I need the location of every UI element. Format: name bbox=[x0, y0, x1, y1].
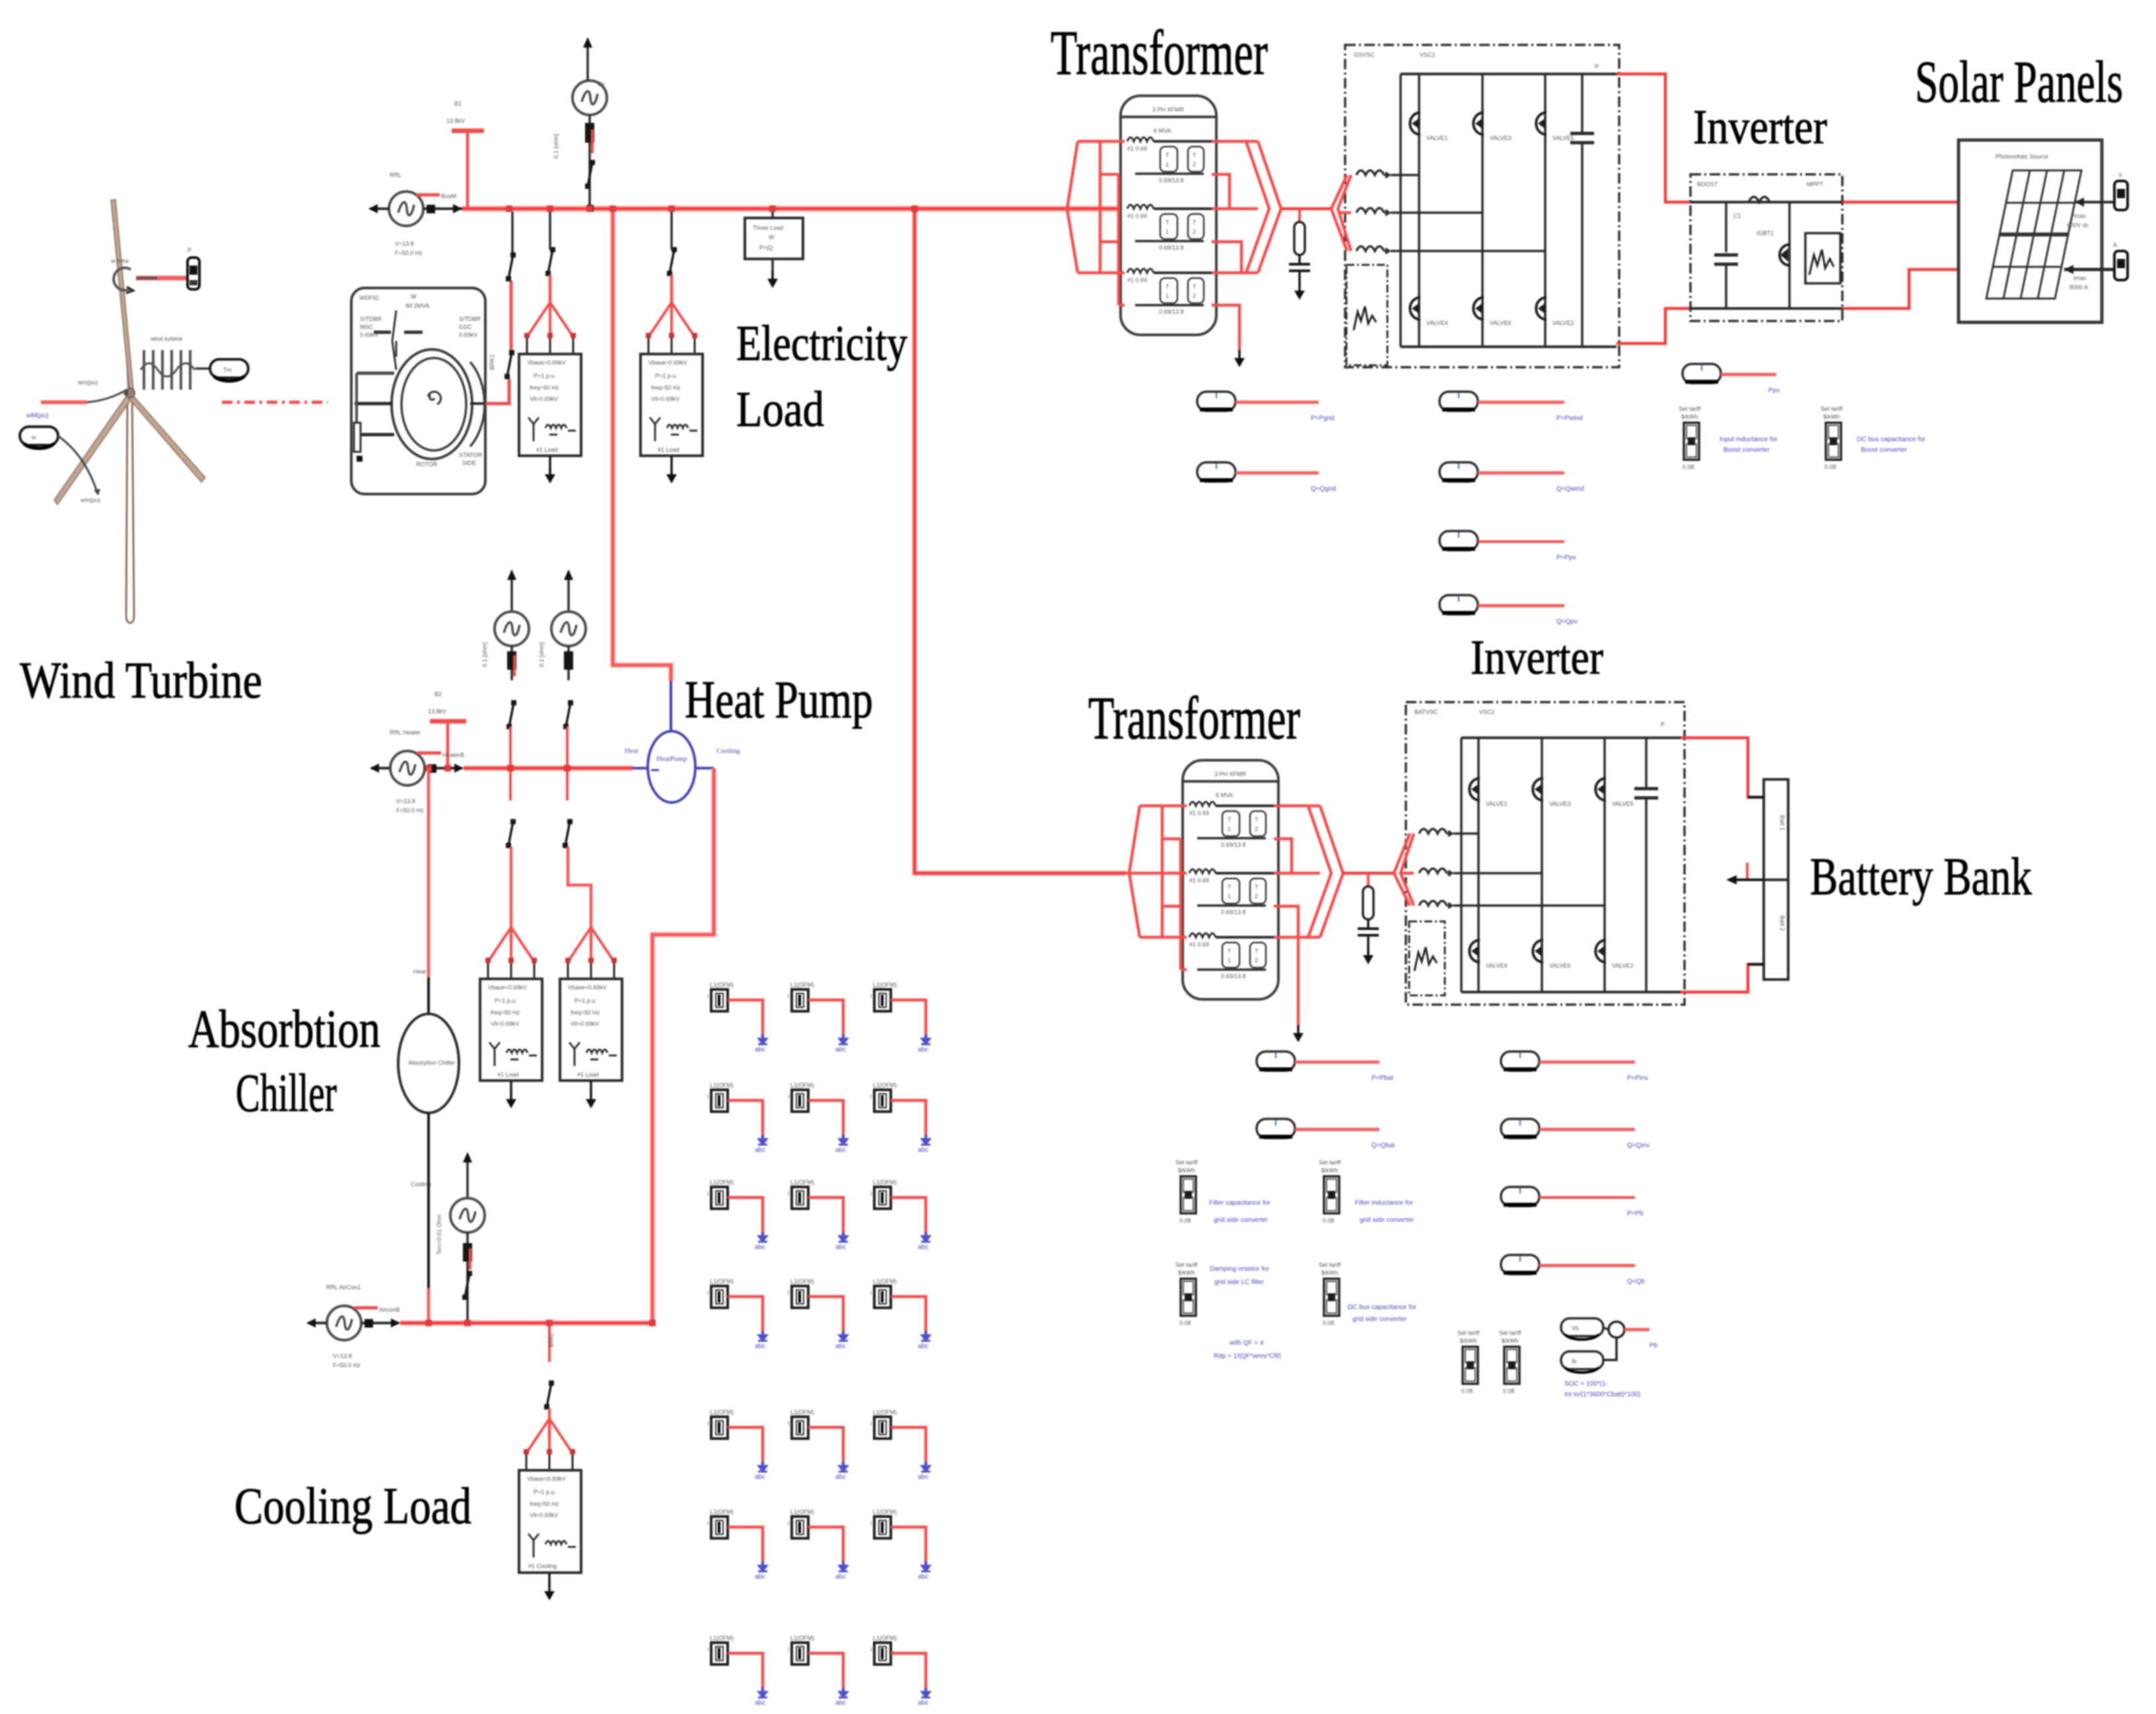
svg-text:Vb: Vb bbox=[1572, 1325, 1579, 1332]
svg-text:ROTOR: ROTOR bbox=[416, 461, 438, 468]
meter capsule row B2 bbox=[1440, 462, 1478, 482]
heater load branch 2 down bbox=[566, 768, 569, 801]
solar panel grid bbox=[1986, 170, 2081, 299]
svg-text:Batt 1: Batt 1 bbox=[1779, 815, 1786, 831]
svg-text:RRL AirCon1: RRL AirCon1 bbox=[326, 1284, 361, 1291]
svg-text:C1: C1 bbox=[1733, 213, 1741, 219]
svg-text:600V dc: 600V dc bbox=[2067, 222, 2089, 229]
svg-text:A: A bbox=[2113, 242, 2117, 248]
wind turbine blade C bbox=[129, 394, 205, 482]
bus2 junction dots bbox=[444, 765, 451, 771]
svg-text:BRKc: BRKc bbox=[548, 1332, 555, 1347]
bus3 junction dots bbox=[425, 1320, 432, 1326]
T1 ground right bbox=[1234, 350, 1245, 367]
firing pulse sub-box bbox=[1346, 265, 1387, 365]
inverter2 IGBTs top bbox=[1469, 778, 1480, 801]
cooling aux source bbox=[466, 1155, 469, 1197]
svg-text:V: V bbox=[2118, 172, 2122, 178]
svg-text:GSVSC: GSVSC bbox=[1354, 52, 1375, 58]
svg-text:grid side converter: grid side converter bbox=[1214, 1217, 1269, 1224]
svg-text:P: P bbox=[188, 247, 191, 254]
arc to wm label bbox=[58, 436, 98, 494]
meter capsule row A1 bbox=[1197, 392, 1235, 411]
dcdc rails bbox=[1690, 201, 1842, 203]
svg-text:wm(pu): wm(pu) bbox=[77, 379, 98, 386]
tariff F2 bbox=[1499, 1330, 1521, 1394]
converter rails bbox=[1401, 73, 1617, 75]
svg-text:w beta: w beta bbox=[110, 258, 129, 264]
svg-text:Int Io/(1*3600*Cbatt)*100): Int Io/(1*3600*Cbatt)*100) bbox=[1564, 1391, 1640, 1398]
svg-text:SIDE: SIDE bbox=[462, 460, 476, 466]
red stub wM bbox=[41, 400, 87, 404]
dcdc capacitor bbox=[1725, 202, 1727, 252]
breaker drop 2 (load2) bbox=[667, 247, 677, 276]
svg-text:DC bus capacitance for: DC bus capacitance for bbox=[1857, 436, 1926, 443]
svg-text:Heat: Heat bbox=[413, 968, 427, 975]
cooling load block bbox=[519, 1419, 581, 1600]
battery bottom cell bbox=[1764, 880, 1788, 980]
wind turbine blade B bbox=[54, 394, 132, 505]
battery top cell bbox=[1764, 779, 1788, 880]
svg-text:Cooling: Cooling bbox=[411, 1181, 431, 1188]
svg-text:Ppv: Ppv bbox=[1768, 387, 1780, 394]
svg-text:BusM: BusM bbox=[441, 193, 456, 199]
wire spring to meter bbox=[195, 367, 210, 370]
svg-text:Pmax: Pmax bbox=[2071, 213, 2087, 219]
heat pump ellipse bbox=[670, 681, 672, 731]
svg-text:Chiller: Chiller bbox=[236, 1063, 337, 1123]
breaker top of riser bbox=[506, 252, 516, 281]
svg-text:Cooling Load: Cooling Load bbox=[234, 1477, 471, 1534]
svg-text:HeatPump: HeatPump bbox=[656, 755, 687, 763]
svg-text:P=Pwind: P=Pwind bbox=[1556, 415, 1583, 422]
svg-text:VSC2: VSC2 bbox=[1479, 709, 1495, 715]
dcdc to solar red bottom bbox=[1842, 269, 1959, 308]
T2 ground right bbox=[1293, 1025, 1304, 1042]
svg-text:Inverter: Inverter bbox=[1471, 631, 1603, 685]
T1 row mid-links red bbox=[1212, 141, 1258, 350]
heat busbar T bbox=[430, 719, 466, 724]
load block 2 bbox=[641, 303, 703, 483]
meter capsule D4 bbox=[1501, 1255, 1539, 1274]
svg-text:VALVE5: VALVE5 bbox=[1552, 135, 1574, 141]
inverter2 DC cap bbox=[1634, 787, 1658, 791]
meter capsule D3 bbox=[1501, 1187, 1539, 1206]
machine ellipse bbox=[392, 349, 472, 459]
svg-text:Wind Turbine: Wind Turbine bbox=[20, 651, 262, 709]
svg-text:VALVE6: VALVE6 bbox=[1549, 962, 1571, 969]
T2 to inverter2 link bbox=[1343, 872, 1394, 875]
yaw circle w governor bbox=[114, 268, 131, 291]
wire yaw to pitch block bbox=[136, 276, 186, 281]
svg-text:HeaterB: HeaterB bbox=[442, 752, 464, 758]
generator block WDFIG bbox=[351, 288, 485, 494]
svg-text:VALVE4: VALVE4 bbox=[1426, 320, 1448, 326]
svg-text:#1 Cooling: #1 Cooling bbox=[528, 1563, 557, 1569]
converter legs bbox=[1419, 74, 1582, 347]
svg-text:VALVE2: VALVE2 bbox=[1552, 320, 1574, 326]
svg-text:0.1 [ohm]: 0.1 [ohm] bbox=[538, 642, 545, 667]
svg-text:Absorbtion: Absorbtion bbox=[188, 999, 380, 1059]
svg-text:Q=Qbat: Q=Qbat bbox=[1372, 1142, 1395, 1149]
svg-text:BATVSC: BATVSC bbox=[1414, 709, 1438, 715]
inverter2 input inductors bbox=[1419, 829, 1452, 836]
tariff block pv2 bbox=[1821, 406, 1843, 470]
svg-text:Absorption Chiller: Absorption Chiller bbox=[408, 1059, 455, 1066]
svg-text:GSC: GSC bbox=[459, 324, 472, 330]
DC capacitor bbox=[1570, 132, 1594, 135]
svg-text:V=13.8: V=13.8 bbox=[396, 798, 415, 804]
svg-text:Transformer: Transformer bbox=[1088, 684, 1300, 752]
meter capsule row A2 bbox=[1197, 462, 1235, 482]
heat pump feeder drop bbox=[613, 209, 671, 681]
svg-text:SOC = 100*(1-: SOC = 100*(1- bbox=[1564, 1380, 1608, 1388]
meter capsule D2 bbox=[1501, 1119, 1539, 1138]
svg-text:S/TDBR: S/TDBR bbox=[459, 316, 481, 322]
svg-text:w: w bbox=[31, 434, 36, 441]
svg-text:Inverter: Inverter bbox=[1693, 100, 1827, 155]
svg-text:P+jQ: P+jQ bbox=[759, 244, 773, 251]
torque meter capsule bbox=[210, 359, 248, 378]
heater source branch 2 up bbox=[567, 572, 570, 612]
AC source cooling bbox=[327, 1306, 361, 1340]
stator wires bbox=[357, 372, 394, 375]
svg-text:with QF = 4: with QF = 4 bbox=[1229, 1339, 1264, 1347]
svg-text:0.69kV: 0.69kV bbox=[459, 332, 477, 338]
converter outer dash box bbox=[1345, 45, 1619, 367]
svg-text:0.1 [ohm]: 0.1 [ohm] bbox=[553, 133, 559, 159]
tariff E2 bbox=[1319, 1159, 1341, 1224]
arc into hub bbox=[87, 390, 127, 402]
svg-text:grid side LC filter: grid side LC filter bbox=[1214, 1279, 1265, 1286]
svg-text:VALVE3: VALVE3 bbox=[1549, 801, 1571, 807]
svg-text:Heat Pump: Heat Pump bbox=[685, 671, 873, 729]
svg-text:Boost converter: Boost converter bbox=[1861, 446, 1908, 454]
IGBTs bottom row bbox=[1410, 297, 1420, 320]
transformer T1 block bbox=[1121, 96, 1216, 335]
svg-text:MPPT: MPPT bbox=[1807, 181, 1824, 188]
dcdc inductor bbox=[1749, 197, 1770, 202]
wind turbine tower bbox=[126, 392, 134, 623]
svg-text:F=50.0 Hz: F=50.0 Hz bbox=[395, 250, 423, 256]
inverter2 rails bbox=[1461, 736, 1681, 739]
main AC grid source bbox=[389, 192, 423, 226]
shunt RC on T2 link bbox=[1358, 873, 1379, 964]
T1 input chevron wiring bbox=[1067, 141, 1125, 305]
svg-text:S/TDBR: S/TDBR bbox=[360, 316, 382, 322]
heater source branch 1 up bbox=[510, 572, 513, 612]
shunt RC on link bbox=[1289, 209, 1310, 300]
tariff E3 bbox=[1175, 1262, 1198, 1326]
svg-text:Tm: Tm bbox=[223, 367, 232, 373]
svg-text:VALVE2: VALVE2 bbox=[1612, 962, 1634, 969]
svg-text:VALVE6: VALVE6 bbox=[1490, 320, 1512, 326]
svg-text:Solar Panels: Solar Panels bbox=[1915, 50, 2123, 115]
generator riser red to bus bbox=[510, 281, 513, 350]
svg-text:Vbase=0.69kV: Vbase=0.69kV bbox=[527, 1476, 566, 1482]
svg-text:WDFIG: WDFIG bbox=[359, 295, 379, 301]
svg-text:P=Ppv: P=Ppv bbox=[1556, 554, 1576, 561]
converter DC out red bottom bbox=[1617, 308, 1690, 343]
svg-text:P: P bbox=[1595, 63, 1599, 70]
svg-text:B1: B1 bbox=[454, 100, 462, 107]
svg-text:BRK1: BRK1 bbox=[489, 354, 495, 370]
meter capsule D1 bbox=[1501, 1052, 1539, 1071]
dcdc diode bbox=[1788, 202, 1791, 308]
solar panel block bbox=[1959, 140, 2102, 322]
inverter2 firing box bbox=[1409, 921, 1445, 995]
svg-text:F=50.0 Hz: F=50.0 Hz bbox=[396, 807, 424, 814]
svg-text:IGBT1: IGBT1 bbox=[1756, 230, 1774, 236]
svg-text:W: W bbox=[769, 234, 775, 240]
svg-text:Three Load: Three Load bbox=[753, 225, 783, 231]
svg-text:0.1 [ohm]: 0.1 [ohm] bbox=[481, 642, 488, 667]
chiller feeder bbox=[427, 768, 431, 978]
svg-text:Batt 2: Batt 2 bbox=[1779, 915, 1786, 931]
svg-text:V=13.8: V=13.8 bbox=[333, 1353, 352, 1359]
svg-text:grid side converter: grid side converter bbox=[1352, 1316, 1407, 1323]
svg-text:VSC1: VSC1 bbox=[1420, 52, 1436, 58]
svg-text:VALVE4: VALVE4 bbox=[1486, 962, 1508, 969]
svg-text:P=Pgrid: P=Pgrid bbox=[1311, 415, 1335, 422]
svg-text:Cooling: Cooling bbox=[716, 747, 740, 755]
inverter2 outer dash box bbox=[1406, 702, 1685, 1005]
svg-text:Q=Qinv: Q=Qinv bbox=[1627, 1142, 1650, 1149]
generator red output wire bbox=[485, 379, 509, 404]
tariff block pv1 bbox=[1679, 406, 1701, 470]
svg-text:B2: B2 bbox=[435, 691, 442, 697]
svg-text:F=50.0 Hz: F=50.0 Hz bbox=[333, 1362, 361, 1369]
rotor output line bbox=[470, 402, 485, 405]
dcdc box bbox=[1690, 174, 1842, 321]
cooling bus red bbox=[400, 1320, 652, 1326]
input inductors bbox=[1356, 170, 1389, 178]
cooling load branch bbox=[548, 1323, 551, 1362]
dcdc PWM box bbox=[1805, 233, 1840, 283]
svg-text:RRL: RRL bbox=[390, 172, 401, 178]
multiplier group bbox=[1561, 1318, 1603, 1336]
svg-text:Filter inductance for: Filter inductance for bbox=[1355, 1199, 1413, 1207]
tariff E4 bbox=[1319, 1262, 1341, 1326]
svg-text:Es: Es bbox=[598, 81, 605, 87]
svg-text:Load: Load bbox=[736, 382, 824, 437]
svg-text:P: P bbox=[1661, 721, 1665, 728]
breaker on generator riser bbox=[504, 350, 514, 379]
svg-text:Tsrc=0.01 Ohm: Tsrc=0.01 Ohm bbox=[436, 1215, 442, 1255]
inverter2 out red top bbox=[1681, 738, 1764, 797]
inverter2 input chevron bbox=[1394, 834, 1414, 906]
svg-text:Damping resistor for: Damping resistor for bbox=[1210, 1266, 1270, 1273]
T1 to converter red link bbox=[1281, 207, 1331, 211]
svg-text:VALVE5: VALVE5 bbox=[1612, 801, 1634, 807]
meter capsule row B1 bbox=[1440, 392, 1478, 411]
svg-text:Q=Qgrid: Q=Qgrid bbox=[1311, 485, 1336, 493]
meter capsule C2 bbox=[1257, 1119, 1295, 1138]
svg-text:Filter capacitance for: Filter capacitance for bbox=[1209, 1199, 1270, 1207]
svg-text:13.8kV: 13.8kV bbox=[428, 708, 446, 715]
converter DC out red top bbox=[1617, 74, 1690, 202]
heat bus red bbox=[464, 766, 633, 771]
svg-text:Imax: Imax bbox=[2073, 275, 2087, 281]
svg-text:8000 A: 8000 A bbox=[2069, 284, 2088, 291]
AC source heat bus bbox=[390, 751, 425, 785]
svg-text:Electricity: Electricity bbox=[736, 316, 907, 371]
battery mid tap bbox=[1746, 863, 1749, 881]
svg-text:W: W bbox=[411, 293, 417, 300]
svg-text:P=Pbat: P=Pbat bbox=[1372, 1075, 1393, 1082]
inverter2 out red bottom bbox=[1681, 964, 1764, 992]
svg-text:Q=Qpv: Q=Qpv bbox=[1556, 618, 1578, 625]
T1 output chevron bbox=[1246, 141, 1281, 273]
IGBTs top row bbox=[1410, 112, 1420, 135]
bus1 red horizontal bbox=[462, 206, 1125, 212]
svg-text:wm(pu): wm(pu) bbox=[80, 497, 100, 503]
svg-text:Heat: Heat bbox=[625, 747, 639, 755]
svg-text:grid side converter: grid side converter bbox=[1360, 1217, 1414, 1224]
svg-text:AirconB: AirconB bbox=[379, 1306, 400, 1313]
T2 right side links bbox=[1274, 806, 1320, 1025]
T2 output chevron bbox=[1308, 806, 1343, 937]
svg-text:VALVE3: VALVE3 bbox=[1490, 135, 1512, 141]
svg-text:Rdp = 1/(QF*wres*Cfil): Rdp = 1/(QF*wres*Cfil) bbox=[1214, 1353, 1281, 1360]
solar terminals bbox=[2075, 201, 2114, 203]
inverter2 legs bbox=[1478, 738, 1646, 992]
transformer2 feeder drop bbox=[915, 209, 1125, 873]
heater load branch 1 down bbox=[509, 768, 512, 801]
svg-text:VALVE1: VALVE1 bbox=[1486, 801, 1508, 807]
wind turbine mast link bbox=[123, 288, 129, 391]
battery terminals black stubs bbox=[1748, 796, 1764, 799]
meter capsule row B3 bbox=[1440, 531, 1478, 550]
bus junction dots bbox=[506, 205, 512, 212]
svg-text:MSC: MSC bbox=[360, 324, 374, 330]
chiller bottom line bbox=[427, 1113, 430, 1288]
svg-text:VALVE1: VALVE1 bbox=[1426, 135, 1448, 141]
svg-text:wM(pu): wM(pu) bbox=[26, 412, 48, 419]
svg-text:IM 2MVA: IM 2MVA bbox=[405, 303, 429, 309]
svg-text:Photovoltaic Source: Photovoltaic Source bbox=[1996, 153, 2048, 160]
breaker drop 1 (load1) bbox=[545, 247, 555, 276]
busbar T symbol bbox=[452, 129, 484, 133]
tariff E1 bbox=[1175, 1159, 1198, 1224]
svg-text:Q=Qb: Q=Qb bbox=[1627, 1278, 1645, 1285]
meter capsule row B4 bbox=[1440, 595, 1478, 614]
svg-text:Battery Bank: Battery Bank bbox=[1810, 848, 2032, 906]
load block 1 bbox=[519, 303, 581, 483]
heat pump cooling out wire bbox=[652, 768, 714, 1323]
svg-text:STATOR: STATOR bbox=[459, 452, 483, 458]
wind turbine hub bbox=[125, 388, 135, 398]
svg-text:freq=50 Hz: freq=50 Hz bbox=[530, 1501, 559, 1507]
machine switch bbox=[374, 331, 391, 334]
three-phase meter block bbox=[771, 210, 774, 218]
chiller ellipse bbox=[398, 1014, 459, 1113]
svg-text:Input inductance for: Input inductance for bbox=[1720, 436, 1778, 443]
svg-text:Ib: Ib bbox=[1572, 1358, 1577, 1365]
svg-text:Boost converter: Boost converter bbox=[1723, 446, 1770, 454]
svg-text:BOOST: BOOST bbox=[1697, 181, 1718, 188]
svg-text:Pb: Pb bbox=[1650, 1342, 1658, 1349]
transformer T2 block bbox=[1183, 760, 1278, 999]
tariff F1 bbox=[1457, 1330, 1480, 1394]
svg-text:P=Pb: P=Pb bbox=[1627, 1210, 1644, 1217]
input chevron red bbox=[1331, 175, 1351, 251]
speed capsule bbox=[20, 427, 58, 445]
dcdc to solar red top bbox=[1842, 201, 1959, 204]
wind turbine blade A bbox=[111, 199, 133, 391]
inverter2 IGBTs bottom bbox=[1469, 940, 1480, 962]
svg-text:P=1 p.u.: P=1 p.u. bbox=[534, 1489, 556, 1495]
svg-text:P=Pinv: P=Pinv bbox=[1627, 1075, 1648, 1082]
dashed red reference wire bbox=[222, 401, 328, 404]
svg-text:wind turbine: wind turbine bbox=[150, 336, 183, 342]
AC source top (aux) bbox=[573, 81, 607, 115]
svg-text:DC bus capacitance for: DC bus capacitance for bbox=[1348, 1304, 1417, 1311]
T2 input chevrons bbox=[1125, 806, 1187, 970]
svg-text:RRL Heater: RRL Heater bbox=[390, 729, 421, 736]
svg-text:13.8kV: 13.8kV bbox=[446, 118, 465, 124]
meter capsule C1 bbox=[1257, 1052, 1295, 1071]
svg-text:Transformer: Transformer bbox=[1051, 17, 1268, 88]
meter capsule solar bbox=[1683, 364, 1721, 383]
svg-text:V=13.8: V=13.8 bbox=[395, 240, 414, 247]
svg-text:Q=Qwind: Q=Qwind bbox=[1556, 485, 1584, 493]
svg-text:Vll=0.69kV: Vll=0.69kV bbox=[530, 1512, 558, 1518]
